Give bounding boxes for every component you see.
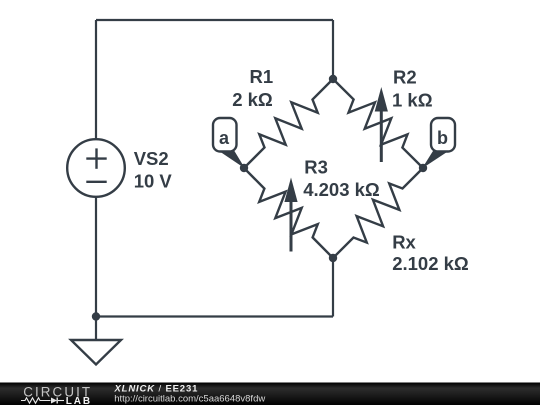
label VS2 value — [134, 148, 173, 191]
svg-text:1 kΩ: 1 kΩ — [392, 90, 433, 111]
svg-text:2 kΩ: 2 kΩ — [232, 89, 273, 110]
footer logo CIRCUIT — [23, 384, 92, 399]
voltage source VS2 — [67, 139, 125, 197]
junction node a — [240, 164, 248, 172]
label R2 value — [392, 67, 433, 111]
junction top node — [329, 75, 337, 83]
svg-text:R2: R2 — [393, 67, 417, 88]
resistor R2 (variable) — [333, 79, 423, 168]
junction node b — [419, 164, 427, 172]
resistor Rx — [333, 168, 423, 258]
svg-text:a: a — [219, 128, 230, 148]
wire right vertical drop to top node — [332, 20, 334, 79]
resistor R3 (variable) — [244, 168, 333, 258]
footer logo resistor-diode glyph — [21, 398, 64, 404]
svg-text:Rx: Rx — [392, 232, 416, 253]
label R3 value — [303, 157, 380, 200]
label R1 value — [232, 66, 273, 110]
svg-text:R3: R3 — [304, 157, 328, 178]
svg-text:VS2: VS2 — [134, 148, 169, 169]
junction bottom node — [329, 254, 337, 262]
wire bottom node vertical drop — [332, 258, 334, 317]
ground — [71, 317, 121, 365]
junction ground node — [92, 312, 100, 320]
svg-text:10 V: 10 V — [134, 170, 173, 191]
wire bottom horizontal — [96, 315, 333, 317]
svg-text:R1: R1 — [250, 66, 274, 87]
footer bar — [0, 383, 540, 405]
footer logo LAB — [66, 396, 92, 405]
svg-text:b: b — [437, 128, 448, 148]
svg-text:2.102 kΩ: 2.102 kΩ — [392, 253, 469, 274]
arrow of variable resistor R2 — [375, 87, 388, 162]
arrow of variable resistor R3 — [284, 178, 297, 252]
footer url line — [114, 394, 265, 405]
wire top horizontal — [96, 19, 333, 21]
wire left vertical to source top — [95, 20, 97, 140]
node flag a — [213, 118, 245, 169]
svg-text:4.203 kΩ: 4.203 kΩ — [303, 179, 380, 200]
node flag b — [422, 118, 455, 169]
label Rx value — [392, 232, 469, 274]
wire source bottom to ground junction — [95, 196, 97, 317]
footer credit line — [114, 384, 199, 395]
resistor R1 — [244, 79, 333, 168]
svg-text:http://circuitlab.com/c5aa6648: http://circuitlab.com/c5aa6648v8fdw — [114, 394, 265, 405]
svg-text:LAB: LAB — [66, 396, 92, 405]
